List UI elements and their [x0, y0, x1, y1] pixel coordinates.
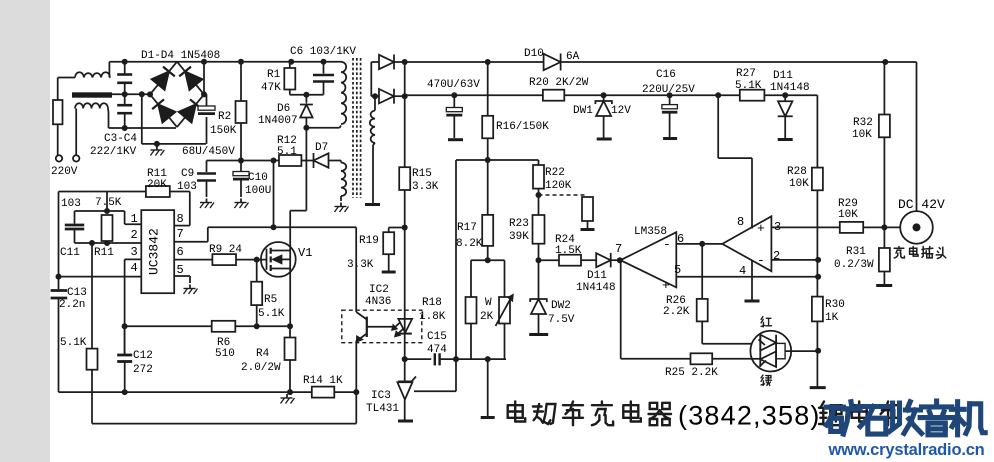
svg-text:V1: V1	[298, 246, 312, 260]
svg-text:C9: C9	[181, 168, 194, 180]
svg-text:R32: R32	[853, 117, 873, 129]
svg-text:8.2K: 8.2K	[456, 238, 483, 250]
svg-text:20K: 20K	[147, 179, 167, 191]
svg-text:R15: R15	[412, 168, 432, 180]
svg-text:5.1: 5.1	[277, 146, 297, 158]
svg-text:UC3842: UC3842	[147, 228, 162, 275]
svg-text:IC3: IC3	[371, 390, 391, 402]
svg-text:3.3K: 3.3K	[347, 259, 374, 271]
svg-text:68U/450V: 68U/450V	[182, 146, 235, 158]
svg-text:C6 103/1KV: C6 103/1KV	[290, 46, 356, 58]
svg-text:10K: 10K	[838, 209, 858, 221]
svg-text:4: 4	[131, 261, 138, 275]
svg-text:D7: D7	[315, 142, 328, 154]
svg-text:C13: C13	[67, 287, 87, 299]
svg-text:C15: C15	[427, 331, 447, 343]
svg-text:10K: 10K	[852, 129, 872, 141]
svg-text:R23: R23	[509, 218, 529, 230]
svg-text:5: 5	[674, 263, 681, 277]
svg-text:DC 42V: DC 42V	[898, 197, 945, 212]
svg-text:D6: D6	[277, 103, 290, 115]
svg-text:D10: D10	[524, 48, 544, 60]
svg-text:D1-D4 1N5408: D1-D4 1N5408	[141, 50, 220, 62]
svg-text:D11: D11	[773, 70, 793, 82]
svg-text:6: 6	[677, 232, 684, 246]
svg-text:2.2K: 2.2K	[663, 306, 690, 318]
svg-text:1.5K: 1.5K	[555, 245, 582, 257]
svg-text:IC2: IC2	[369, 284, 389, 296]
svg-text:3: 3	[131, 245, 138, 259]
svg-text:C16: C16	[656, 69, 676, 81]
svg-text:R2: R2	[218, 111, 231, 123]
svg-text:3.3K: 3.3K	[412, 181, 439, 193]
svg-text:220U/25V: 220U/25V	[642, 84, 695, 96]
svg-text:-: -	[663, 237, 671, 252]
svg-text:R20 2K/2W: R20 2K/2W	[529, 77, 589, 89]
svg-text:R11: R11	[94, 247, 114, 259]
svg-text:R9 24: R9 24	[209, 244, 242, 256]
svg-text:R19: R19	[359, 235, 379, 247]
svg-text:5.1K: 5.1K	[60, 337, 87, 349]
svg-text:470U/63V: 470U/63V	[427, 79, 480, 91]
svg-text:R18: R18	[422, 297, 442, 309]
svg-text:2K: 2K	[480, 311, 494, 323]
svg-text:10K: 10K	[789, 178, 809, 190]
svg-text:150K: 150K	[210, 125, 237, 137]
svg-text:1N4148: 1N4148	[770, 82, 810, 94]
svg-text:220V: 220V	[51, 166, 78, 178]
svg-text:+: +	[757, 221, 765, 236]
svg-text:C11: C11	[60, 247, 80, 259]
svg-text:2: 2	[131, 228, 138, 242]
svg-text:5: 5	[177, 263, 184, 277]
svg-text:8: 8	[177, 212, 184, 226]
svg-text:R1: R1	[267, 69, 281, 81]
svg-text:W: W	[485, 297, 492, 309]
svg-text:100U: 100U	[245, 185, 271, 197]
svg-text:2.0/2W: 2.0/2W	[241, 362, 281, 374]
svg-text:39K: 39K	[509, 231, 529, 243]
svg-text:R25 2.2K: R25 2.2K	[665, 367, 718, 379]
svg-text:R28: R28	[787, 166, 807, 178]
svg-text:222/1KV: 222/1KV	[90, 146, 137, 158]
svg-text:120K: 120K	[545, 180, 572, 192]
svg-text:1.8K: 1.8K	[419, 311, 446, 323]
svg-text:12V: 12V	[611, 105, 631, 117]
svg-text:R31: R31	[846, 246, 866, 258]
svg-text:4N36: 4N36	[365, 296, 391, 308]
svg-text:+: +	[662, 278, 670, 293]
svg-text:R22: R22	[545, 167, 565, 179]
svg-text:R14 1K: R14 1K	[303, 375, 343, 387]
svg-text:47K: 47K	[261, 82, 281, 94]
svg-text:7.5K: 7.5K	[95, 197, 122, 209]
svg-text:C12: C12	[133, 350, 153, 362]
svg-text:www.crystalradio.cn: www.crystalradio.cn	[828, 441, 985, 459]
svg-text:7: 7	[615, 242, 622, 256]
svg-text:6A: 6A	[566, 51, 580, 63]
svg-text:7: 7	[177, 227, 184, 241]
svg-text:TL431: TL431	[366, 403, 399, 415]
svg-text:DW1: DW1	[573, 105, 593, 117]
svg-text:1N4148: 1N4148	[576, 282, 616, 294]
svg-text:D11: D11	[587, 270, 607, 282]
svg-text:4: 4	[739, 264, 746, 278]
svg-text:2: 2	[773, 249, 780, 263]
svg-text:-: -	[757, 253, 765, 268]
svg-text:R30: R30	[825, 299, 845, 311]
svg-text:103: 103	[61, 198, 81, 210]
svg-text:474: 474	[427, 344, 447, 356]
svg-text:R16/150K: R16/150K	[496, 121, 549, 133]
svg-text:8: 8	[737, 215, 744, 229]
svg-text:7.5V: 7.5V	[548, 314, 575, 326]
svg-text:5.1K: 5.1K	[258, 308, 285, 320]
svg-text:272: 272	[133, 364, 153, 376]
svg-text:1N4007: 1N4007	[258, 115, 298, 127]
svg-text:(3842,358): (3842,358)	[678, 401, 821, 431]
svg-text:C10: C10	[248, 172, 268, 184]
svg-text:0.2/3W: 0.2/3W	[834, 259, 874, 271]
svg-text:1K: 1K	[825, 312, 839, 324]
svg-text:DW2: DW2	[551, 300, 571, 312]
svg-text:2.2n: 2.2n	[59, 299, 85, 311]
svg-text:R17: R17	[457, 222, 477, 234]
svg-text:C3-C4: C3-C4	[104, 133, 137, 145]
svg-text:R4: R4	[256, 348, 270, 360]
svg-text:R5: R5	[264, 294, 277, 306]
svg-text:5.1K: 5.1K	[735, 80, 762, 92]
svg-text:R27: R27	[736, 68, 756, 80]
svg-text:510: 510	[215, 348, 235, 360]
svg-text:6: 6	[177, 245, 184, 259]
